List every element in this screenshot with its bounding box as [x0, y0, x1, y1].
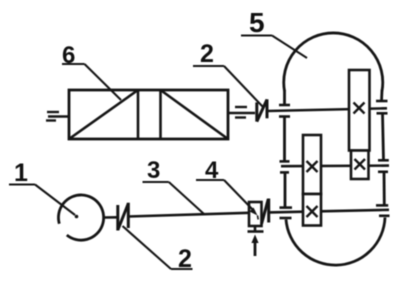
clutch 4 coupling diagonal: [262, 199, 269, 224]
gearbox housing right wall segments: [382, 90, 385, 205]
label 6: [62, 42, 121, 100]
coupling 2 (lower, at motor): [118, 203, 129, 231]
gear Z4 on bottom shaft (left wheel): [303, 194, 321, 226]
clutch 4 body box: [249, 202, 262, 226]
label 2 (upper): [193, 40, 263, 107]
coupling 2 (upper, between drum 6 and gearbox input shaft): [257, 99, 267, 121]
gear Z1 on top shaft (tall pinion): [349, 70, 370, 151]
label 2 (lower): [123, 226, 193, 273]
drum 6 left cone diagonal: [69, 90, 138, 139]
gearbox housing 5 bottom arc: [286, 218, 385, 266]
bearing: left wall, middle shaft: [280, 161, 290, 172]
gearbox housing left wall segments: [283, 90, 286, 208]
svg-text:1: 1: [14, 159, 28, 187]
motor 1 (circle): [58, 195, 103, 240]
wire: middle shaft: [281, 164, 389, 167]
bearing: right wall, top shaft: [376, 101, 388, 113]
svg-text:2: 2: [200, 40, 214, 68]
shaft 3 (long transmission shaft): [128, 213, 249, 217]
left frame anchor of drum 6: [46, 112, 69, 121]
gearbox housing 5 top arc: [284, 33, 383, 91]
label 5: [241, 7, 307, 58]
svg-text:5: 5: [249, 7, 265, 38]
wire: gearbox input shaft (top shaft): [267, 108, 387, 111]
drum 6 middle band left line: [137, 90, 140, 139]
svg-text:3: 3: [147, 157, 160, 184]
clutch 4 actuator arrow: [251, 235, 258, 257]
label 1: [9, 159, 75, 215]
drum 6 middle band right line: [159, 90, 162, 139]
bearing: left wall, top shaft: [279, 105, 290, 117]
clutch 4 actuator base line: [248, 226, 264, 232]
right frame anchor of drum 6: [228, 107, 255, 118]
label 4: [196, 157, 258, 220]
drum 6 body rectangle: [69, 90, 228, 139]
clutch 4 coupling right bar: [267, 199, 270, 223]
label 3: [143, 157, 205, 214]
drum 6 right cone diagonal: [161, 90, 229, 139]
wire: motor stub shaft: [104, 216, 117, 219]
bearing: left wall, bottom shaft: [280, 208, 293, 218]
motor 1 center dot: [75, 215, 79, 219]
gear Z2 on middle shaft (right wheel): [351, 151, 369, 180]
gear Z3 on middle shaft (left pinion): [303, 135, 321, 194]
bearing: right wall, middle shaft: [378, 160, 389, 172]
bearing: right wall, bottom shaft: [376, 205, 390, 215]
wire: bottom shaft into gearbox: [269, 210, 389, 213]
